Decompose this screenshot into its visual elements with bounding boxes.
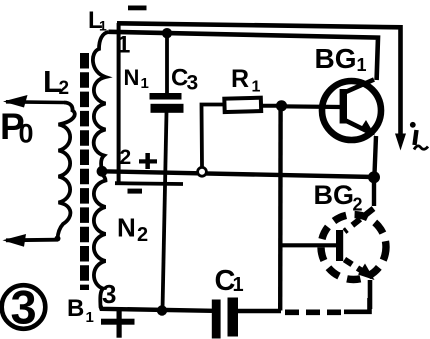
wire R1 right lead: [261, 104, 281, 108]
polarity minus top: [128, 6, 147, 11]
svg-text:1: 1: [141, 75, 149, 92]
node emitter junction dot: [368, 171, 380, 183]
svg-text:1: 1: [357, 55, 367, 75]
svg-text:1: 1: [86, 309, 94, 326]
polarity minus mid: [128, 189, 143, 194]
wire R1 junction to BG1 base: [281, 104, 340, 109]
dashed wire BG2 emitter return: [283, 298, 370, 312]
transformer core: [80, 53, 89, 290]
current arrow i~ head: [395, 134, 406, 151]
wire L2 bottom lead with arrow: [3, 234, 61, 247]
svg-text:1: 1: [99, 18, 107, 34]
pin label 3: [102, 279, 116, 309]
wire top rail lower (terminal 1 to BG1 collector): [109, 32, 379, 80]
svg-text:2: 2: [59, 78, 70, 99]
wire BG2 emitter down: [368, 280, 373, 309]
wire C3 bottom lead to bottom rail: [163, 112, 167, 310]
svg-text:2: 2: [137, 224, 148, 246]
transistor BG2 dashed: [321, 209, 386, 281]
capacitor C1: [212, 298, 238, 339]
label P0: [0, 106, 34, 149]
svg-text:3: 3: [187, 72, 199, 95]
label i~: [410, 122, 428, 150]
label L1: [88, 7, 107, 34]
svg-text:1: 1: [233, 274, 244, 296]
label BG1: [315, 43, 367, 75]
wire emitter junction to BG2 collector: [372, 180, 376, 206]
svg-text:0: 0: [19, 119, 34, 149]
wire upper rail left drop: [117, 23, 121, 184]
resistor R1: [224, 98, 261, 112]
svg-text:B: B: [67, 295, 84, 322]
svg-text:BG: BG: [315, 43, 357, 74]
svg-text:R: R: [231, 65, 249, 93]
wire R1 junction down to bottom rail corner: [278, 106, 283, 311]
label B1: [67, 295, 94, 326]
label L2: [43, 64, 69, 99]
wire R1 left lead: [202, 105, 225, 168]
label N1: [124, 65, 149, 92]
label R1: [231, 65, 261, 96]
svg-text:N: N: [117, 213, 136, 243]
svg-text:3: 3: [11, 281, 37, 334]
polarity plus bottom: [101, 311, 135, 338]
winding N1 with terminal 1 lead: [93, 32, 109, 168]
figure number 3: [2, 281, 46, 334]
svg-text:1: 1: [252, 79, 261, 96]
svg-text:BG: BG: [314, 180, 355, 210]
pin label 1: [117, 32, 130, 59]
wire P0 lead top with arrow: [3, 95, 64, 108]
svg-text:2: 2: [120, 146, 132, 169]
wire top rail upper: [117, 23, 401, 141]
label C3: [171, 65, 198, 95]
winding N2 with terminal 3 lead: [94, 174, 106, 307]
wire bottom rail right of C1: [238, 309, 281, 313]
svg-text:N: N: [124, 65, 140, 90]
node terminal 2 junction dot: [97, 166, 108, 177]
node R1 right junction dot: [276, 100, 287, 111]
svg-text:2: 2: [353, 195, 363, 215]
wire bottom rail left (terminal 3 to C1): [101, 306, 213, 311]
pin label 2: [120, 146, 132, 169]
wire drop to C3 bottom lead: [115, 181, 183, 186]
wire BG1 emitter down: [375, 136, 377, 174]
node bottom junction dot: [157, 305, 167, 315]
svg-text:3: 3: [102, 279, 116, 309]
node junction dot C3 top: [162, 28, 172, 38]
label N2: [117, 213, 148, 247]
wire terminal 2 to BG1 emitter: [102, 171, 374, 177]
winding L2: [58, 103, 75, 240]
polarity plus at terminal 2: [139, 153, 157, 169]
label C1: [215, 265, 244, 297]
node open circle: [198, 167, 207, 176]
capacitor C3: [150, 93, 184, 113]
wire to BG2 base: [281, 243, 337, 247]
transistor BG1: [322, 80, 381, 141]
wire C3 top lead: [165, 34, 169, 94]
label BG2: [314, 180, 363, 215]
